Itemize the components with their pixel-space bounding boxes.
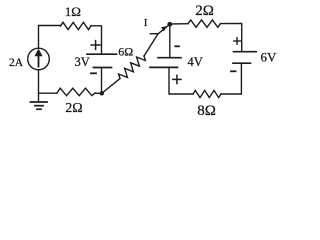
plus sign of 6V: [234, 38, 240, 44]
svg-text:I: I: [144, 17, 148, 29]
svg-text:6Ω: 6Ω: [118, 45, 133, 59]
current arrow I annotation: [150, 33, 157, 35]
plus sign of 4V: [173, 75, 181, 83]
current source I1 2A (circle): [28, 48, 50, 70]
battery 6V bottom plate (-, short): [233, 62, 251, 64]
resistor R 1ohm (top of left loop): [61, 22, 92, 29]
svg-text:1Ω: 1Ω: [65, 4, 81, 19]
svg-text:3V: 3V: [75, 55, 90, 69]
current source arrow: [38, 55, 40, 67]
plus sign of 3V: [91, 41, 100, 50]
resistor R 8ohm (bottom of right loop): [193, 90, 221, 97]
wire: 4V branch upper segment: [169, 24, 171, 57]
minus sign of 3V: [91, 72, 96, 74]
svg-text:2A: 2A: [9, 57, 24, 69]
svg-text:8Ω: 8Ω: [197, 103, 216, 119]
wire: left loop top rail left segment: [39, 26, 61, 49]
wire: bottom rail right segment to node A: [95, 92, 102, 94]
minus sign of 4V: [175, 45, 179, 47]
wire: diagonal upper lead of 6ohm to node B: [144, 24, 170, 56]
battery 4V bottom plate (+, long): [150, 66, 178, 68]
node A (junction dot, bottom of 3V): [100, 91, 104, 95]
wire: top rail right segment and right corner down: [221, 24, 242, 52]
ground symbol: [38, 93, 40, 102]
wire: top rail right segment to 3V branch corner: [91, 26, 102, 54]
wire: 3V branch lower segment: [101, 68, 103, 94]
wire: bottom rail left segment: [39, 92, 58, 94]
svg-text:2Ω: 2Ω: [65, 101, 82, 116]
wire: bottom rail left segment of right loop: [169, 67, 193, 94]
wire: left branch lower segment: [38, 70, 40, 93]
battery 3V top plate (+, long): [87, 53, 117, 55]
node B (junction dot, top of right loop): [167, 22, 172, 27]
wire: diagonal lower lead of 6ohm: [102, 79, 120, 94]
minus sign of 6V: [231, 70, 236, 72]
svg-text:6V: 6V: [261, 50, 278, 65]
battery 6V top plate (+, long): [234, 51, 257, 53]
battery 4V top plate (-, short): [158, 57, 181, 59]
svg-text:2Ω: 2Ω: [195, 3, 214, 19]
battery 3V bottom plate (-, short): [94, 67, 112, 69]
resistor R 2ohm (top of right loop): [188, 20, 221, 27]
wire: right loop top rail left segment: [170, 23, 188, 25]
wire: 6V lower segment to bottom-right corner: [221, 63, 241, 94]
resistor R 6ohm (diagonal): [119, 56, 146, 79]
resistor R 2ohm (bottom of left loop): [57, 88, 95, 96]
svg-text:4V: 4V: [188, 55, 203, 69]
